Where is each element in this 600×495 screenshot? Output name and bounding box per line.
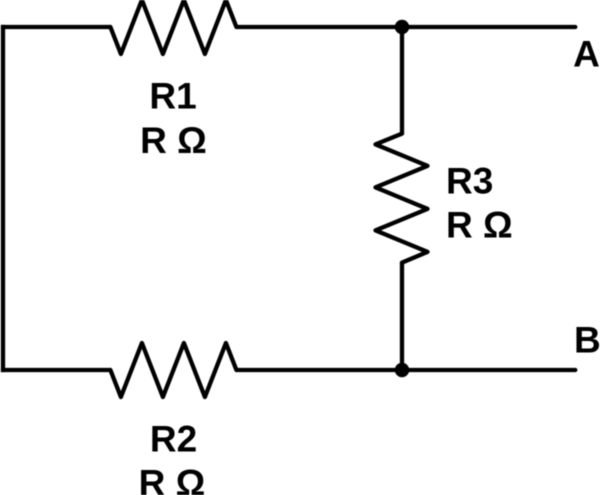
svg-text:R3: R3 bbox=[446, 160, 493, 201]
resistor R2 bbox=[110, 343, 236, 397]
svg-text:R Ω: R Ω bbox=[139, 463, 206, 495]
svg-text:R Ω: R Ω bbox=[140, 120, 207, 161]
svg-text:A: A bbox=[573, 34, 600, 75]
svg-text:R2: R2 bbox=[150, 419, 197, 460]
wire node to terminal B bbox=[402, 368, 575, 372]
resistor R1 bbox=[110, 0, 236, 54]
wire top middle segment (R1 to node) bbox=[236, 25, 402, 29]
node junction bottom bbox=[395, 363, 409, 377]
wire node to terminal A bbox=[402, 25, 575, 29]
wire top-left segment bbox=[1, 25, 111, 29]
wire R3 down to bottom node bbox=[400, 263, 404, 371]
wire bottom-left segment bbox=[1, 368, 111, 372]
resistor R3 bbox=[376, 134, 428, 263]
svg-text:B: B bbox=[574, 319, 600, 360]
node junction top bbox=[395, 20, 409, 34]
svg-text:R Ω: R Ω bbox=[446, 205, 513, 246]
wire node down to R3 bbox=[400, 27, 404, 134]
wire left vertical branch bbox=[1, 27, 5, 370]
svg-text:R1: R1 bbox=[149, 76, 196, 117]
wire bottom middle segment (R2 to node) bbox=[236, 368, 402, 372]
